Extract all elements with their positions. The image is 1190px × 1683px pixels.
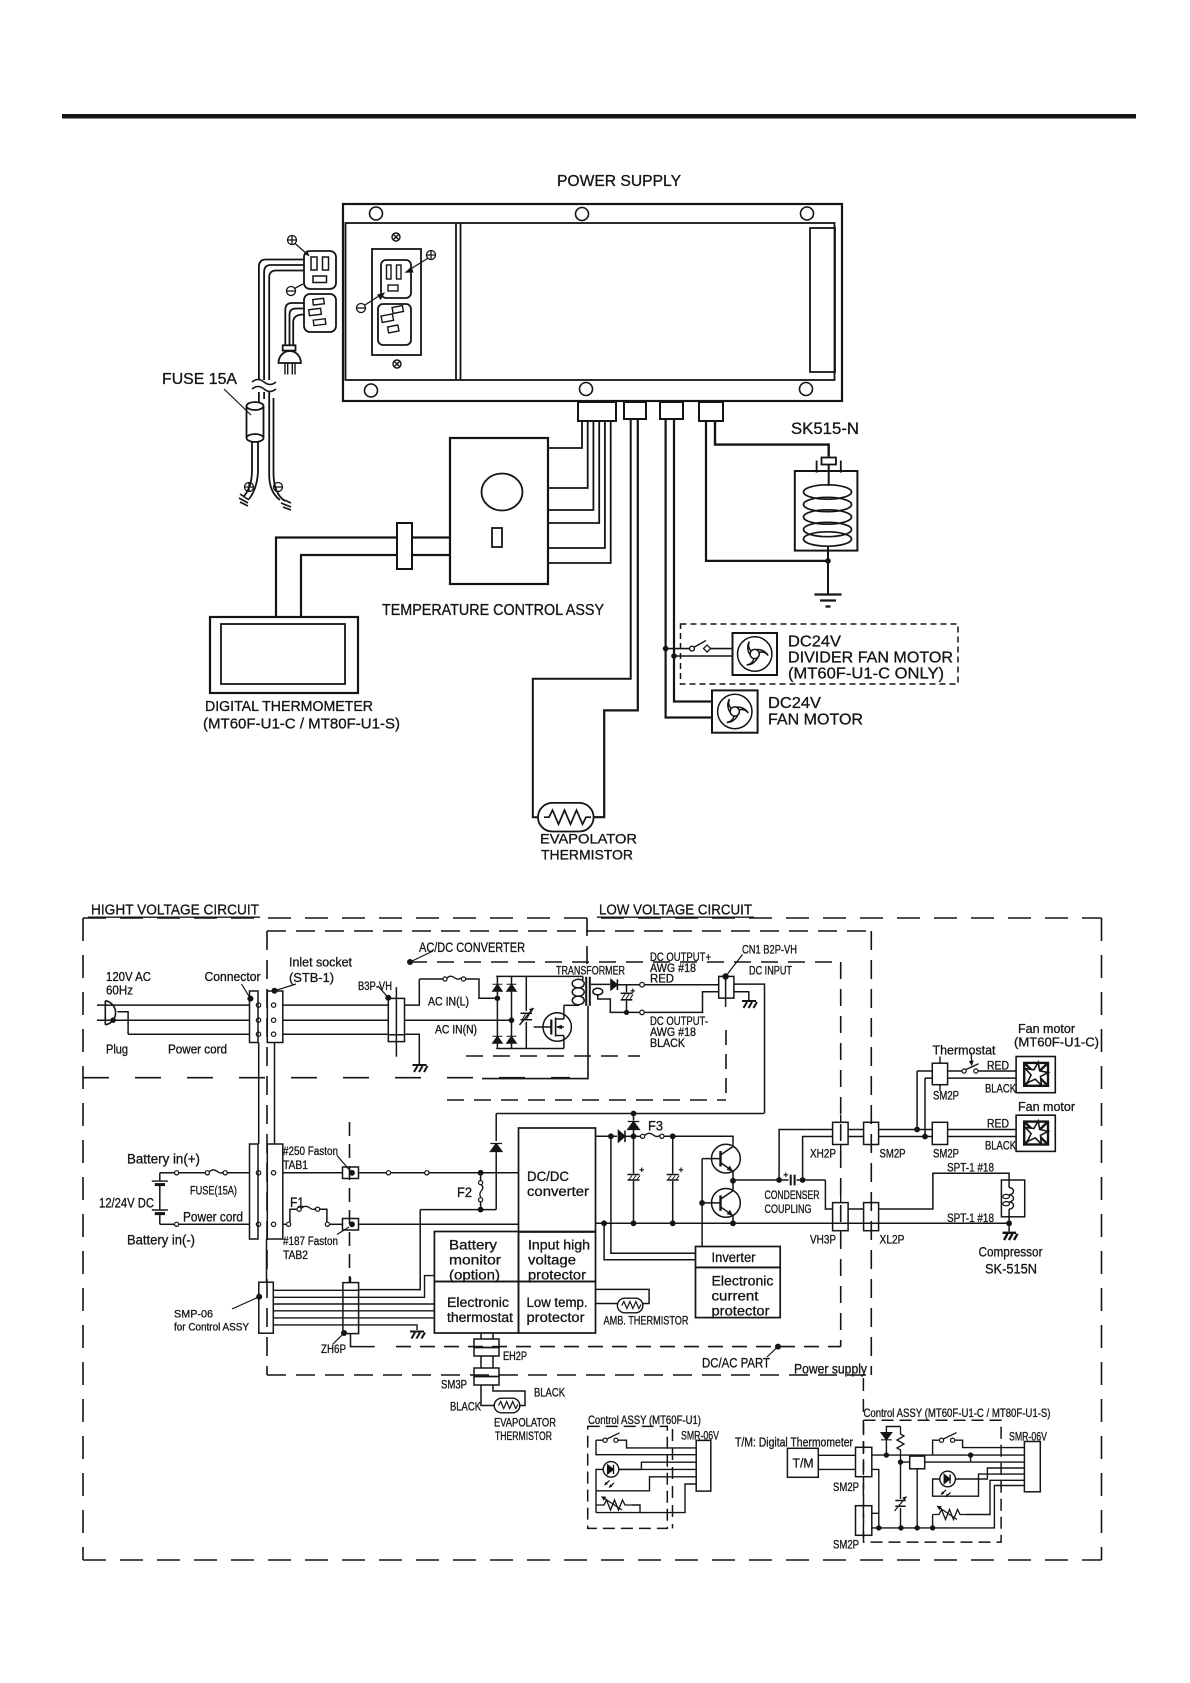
svg-text:Low temp.: Low temp. [527, 1295, 588, 1310]
plug blade and ground lead [118, 1012, 129, 1034]
vertical divider double line [456, 223, 461, 380]
bridge rectifier bottom rail [496, 1048, 564, 1050]
secondary top lead [591, 983, 610, 985]
svg-text:XH2P: XH2P [810, 1149, 836, 1161]
screw top-right [801, 207, 814, 220]
svg-text:TAB2: TAB2 [283, 1250, 308, 1262]
inlet socket housing [267, 991, 283, 1043]
left box switch [603, 1438, 607, 1442]
plus wire TAB1 to DC/DC [359, 1172, 387, 1174]
arrow from minus marker to upper socket lower slot [365, 297, 378, 306]
cable down to SMP-06 [266, 1239, 268, 1282]
minus marker at cord end [274, 483, 283, 492]
dc/ac part dashed mid horizontal [447, 1099, 726, 1101]
F2 bottom horizontal [420, 1209, 496, 1211]
fuse 15A on plus wire [205, 1171, 209, 1175]
wire to VH3P [825, 1180, 832, 1209]
svg-text:Battery in(+): Battery in(+) [127, 1152, 200, 1167]
fan1 black wire [948, 1077, 1017, 1079]
DC output wires to CN1 [644, 984, 718, 986]
bridge diode LR [507, 1036, 517, 1043]
svg-text:(option): (option) [449, 1268, 500, 1283]
ground ZH6P [410, 1332, 425, 1339]
SK515 coil bottom lead to junction [827, 546, 829, 561]
wire tab3-right to fan motor (upper) [674, 419, 712, 702]
wires tab1 to temperature control [548, 421, 582, 448]
svg-text:Control ASSY (MT60F-U1): Control ASSY (MT60F-U1) [588, 1413, 701, 1427]
F3 fuse [641, 1134, 645, 1138]
IEC outlet lower [378, 304, 411, 345]
frayed wire ends right [281, 499, 291, 510]
battery connector housing left [250, 1144, 259, 1239]
MOSFET internals [550, 1020, 552, 1035]
svg-text:FUSE 15A: FUSE 15A [162, 371, 238, 388]
svg-text:B3P-VH: B3P-VH [358, 981, 392, 993]
svg-text:DIGITAL THERMOMETER: DIGITAL THERMOMETER [205, 698, 373, 715]
top low voltage wire [496, 1113, 764, 1115]
plus marker at cord end [245, 483, 254, 492]
svg-text:converter: converter [527, 1184, 590, 1199]
svg-text:protector: protector [528, 1268, 587, 1283]
node dot ac/dc converter leader [407, 959, 413, 965]
minus wire F1 bump [283, 1223, 287, 1225]
junction dots from upper fan [914, 1127, 920, 1133]
divider fan switch [666, 648, 690, 650]
electronic thermostat box [434, 1282, 518, 1334]
cable connector to digital thermometer [276, 538, 397, 618]
SM2P lower (T/M) [856, 1506, 872, 1536]
transistor Q2 [712, 1189, 741, 1218]
wire B3P bottom pin to ground [405, 1034, 420, 1064]
screw bottom-left [365, 384, 378, 397]
primary bottom lead [564, 1004, 579, 1006]
secondary bottom lead path [598, 995, 640, 1012]
SK515 coil box [795, 471, 858, 551]
wire B3P mid pin AC IN(N) [405, 1019, 512, 1021]
control assy left dashed box [588, 1426, 668, 1528]
input high voltage protector box [519, 1232, 596, 1282]
svg-text:SMR-06V: SMR-06V [1009, 1430, 1047, 1444]
svg-text:Power cord: Power cord [168, 1042, 227, 1057]
fuse on AC line [419, 978, 443, 980]
svg-text:THERMISTOR: THERMISTOR [541, 848, 633, 863]
wire tab4-right to SK515 terminal [715, 421, 829, 457]
risers to upper SM2P [917, 1071, 925, 1137]
ZH6P connector [343, 1283, 359, 1334]
svg-text:EVAPOLATOR: EVAPOLATOR [494, 1418, 556, 1430]
LED arrows [605, 1481, 615, 1488]
svg-text:F2: F2 [457, 1185, 472, 1200]
svg-text:#250 Faston: #250 Faston [283, 1146, 338, 1158]
dc part dashed top [410, 961, 841, 963]
connector tab 1 under chassis [578, 402, 616, 421]
right box small rect bottom to rail [916, 1469, 918, 1528]
svg-text:BLACK: BLACK [450, 1402, 481, 1414]
wires EH2P to SM3P [481, 1356, 493, 1368]
svg-text:LOW VOLTAGE CIRCUIT: LOW VOLTAGE CIRCUIT [599, 902, 752, 919]
control cable wires 1-6 [273, 1289, 359, 1291]
inverter feeds [611, 1136, 696, 1253]
svg-text:T/M: T/M [793, 1456, 814, 1471]
control assy boundary dashed vertical [862, 1378, 864, 1544]
svg-text:(MT60F-U1-C): (MT60F-U1-C) [1014, 1035, 1099, 1050]
bridge left column [496, 976, 498, 1048]
junction dot divider fan bottom [671, 653, 677, 659]
CN1 leader dot [722, 973, 728, 979]
power supply inner dashed box [267, 931, 871, 1375]
divider fan motor box [733, 633, 778, 675]
battery monitor box [434, 1232, 518, 1282]
svg-text:Connector: Connector [205, 969, 262, 984]
SM2P upper connector [932, 1063, 947, 1085]
power supply chassis outer box [343, 204, 842, 401]
fan motor 1 icon [1024, 1062, 1048, 1086]
svg-text:RED: RED [650, 974, 674, 986]
svg-text:protector: protector [712, 1304, 771, 1319]
svg-text:AC/DC CONVERTER: AC/DC CONVERTER [419, 939, 525, 955]
svg-text:Plug: Plug [106, 1042, 128, 1057]
ac/dc converter dashed bottom [466, 1055, 640, 1057]
B3P-VH leader dot [385, 995, 391, 1001]
SM2P right lower connector [932, 1122, 947, 1144]
dashed vertical right of left control box [672, 1429, 674, 1528]
svg-text:SM2P: SM2P [833, 1482, 859, 1494]
svg-text:TRANSFORMER: TRANSFORMER [556, 966, 625, 978]
cord below break [259, 392, 264, 402]
svg-text:DC24V: DC24V [788, 634, 841, 651]
DC/DC converter box [519, 1128, 596, 1232]
wire tab3-left to fan motor (lower) [666, 419, 712, 718]
condenser coupling [733, 1179, 789, 1181]
faston boundary dashed vertical [349, 1122, 351, 1282]
bridge right column [511, 976, 513, 1048]
svg-text:BLACK: BLACK [650, 1038, 685, 1050]
svg-text:Inlet socket: Inlet socket [289, 955, 352, 970]
battery minus wire [160, 1223, 175, 1225]
control assy right dashed box [864, 1420, 1002, 1542]
output electrolytic cap [621, 993, 633, 1000]
SM2P upper (T/M) [856, 1447, 872, 1476]
power cord wire L [97, 1004, 250, 1006]
plus screw marker near plate [427, 251, 436, 260]
svg-text:THERMISTOR: THERMISTOR [495, 1431, 552, 1443]
bridge rectifier top rail [496, 975, 583, 977]
right box row B with connector [901, 1461, 1025, 1463]
series diode F3 row [618, 1131, 625, 1143]
MOSFET drain lead up [563, 1005, 565, 1019]
svg-text:POWER SUPPLY: POWER SUPPLY [557, 173, 681, 190]
IEC inlet upper [381, 260, 411, 298]
right box thermistor [933, 1510, 966, 1520]
arrow from plus marker to upper socket [409, 259, 428, 271]
svg-text:voltage: voltage [528, 1253, 576, 1268]
CN1 bottom pin to ground [734, 992, 749, 1000]
svg-text:CONDENSER: CONDENSER [765, 1190, 820, 1202]
svg-text:SM2P: SM2P [933, 1149, 959, 1161]
svg-text:DC INPUT: DC INPUT [749, 966, 792, 978]
inverter box [696, 1247, 781, 1268]
minus wire TAB2 to DC/DC [359, 1223, 519, 1225]
snubber branch [525, 976, 527, 1048]
fan motor 2 icon [1024, 1121, 1048, 1145]
svg-text:AC IN(N): AC IN(N) [435, 1025, 477, 1037]
screw bottom-right [800, 383, 813, 396]
svg-text:thermostat: thermostat [447, 1310, 513, 1325]
ground compressor [1008, 1223, 1010, 1231]
connector body links down [259, 1043, 275, 1145]
power cord from lower NEMA to wall plug [285, 303, 304, 345]
svg-text:Electronic: Electronic [447, 1295, 509, 1310]
frayed wire ends left [239, 494, 249, 506]
svg-text:Fan motor: Fan motor [1018, 1099, 1076, 1114]
svg-text:XL2P: XL2P [880, 1235, 905, 1247]
digital thermometer outer [210, 617, 358, 693]
connector tab 2 under chassis [624, 402, 646, 419]
svg-text:SPT-1 #18: SPT-1 #18 [947, 1161, 994, 1175]
NEMA connector lower (plug body) [304, 294, 336, 332]
minus screw marker near plate [357, 304, 366, 313]
svg-text:BLACK: BLACK [985, 1141, 1016, 1153]
bridge diode UL [493, 984, 503, 991]
svg-text:SM3P: SM3P [441, 1380, 467, 1392]
plus wire to faston TAB1 [283, 1172, 343, 1174]
connector tab 3 under chassis [660, 402, 683, 419]
CN1 B2P-VH connector [719, 976, 734, 998]
battery connector housing right [267, 1144, 283, 1239]
bridge diode LL [493, 1036, 503, 1043]
wires inlet to B3P [283, 1005, 388, 1034]
svg-text:SMP-06: SMP-06 [174, 1309, 213, 1321]
outer dashed enclosure box [83, 918, 1102, 1560]
svg-text:(MT60F-U1-C ONLY): (MT60F-U1-C ONLY) [788, 666, 944, 683]
evaporator thermistor symbol [494, 1398, 520, 1413]
connector leader dot [247, 996, 253, 1002]
F3 row wire [596, 1135, 618, 1137]
svg-text:Electronic: Electronic [712, 1274, 774, 1289]
svg-text:FUSE(15A): FUSE(15A) [190, 1186, 237, 1198]
electrolytic cap 2 [672, 1136, 674, 1221]
plus marker top-left [288, 236, 297, 245]
svg-text:SK-515N: SK-515N [985, 1261, 1037, 1277]
battery cell 1 [152, 1180, 168, 1182]
svg-text:F1: F1 [290, 1195, 304, 1210]
right box varistor to rail [900, 1462, 902, 1528]
fuse cylinder [247, 406, 264, 438]
B3P-VH connector [388, 998, 404, 1041]
screw top-mid [576, 208, 589, 221]
XH2P connector [833, 1122, 849, 1144]
svg-text:HIGHT VOLTAGE CIRCUIT: HIGHT VOLTAGE CIRCUIT [91, 902, 259, 919]
svg-text:Battery: Battery [449, 1238, 497, 1253]
dashed box divider fan motor [681, 624, 959, 684]
right box diode branch [886, 1427, 900, 1456]
DC output pin circles [640, 982, 645, 987]
wire tab4-left to SK515 coil bottom [706, 421, 828, 561]
svg-text:Power supply: Power supply [794, 1362, 867, 1377]
wires thermostat box to EH2P [481, 1333, 493, 1339]
plug dot [110, 1017, 116, 1023]
fan motor 2 box [1016, 1115, 1055, 1151]
svg-text:for Control ASSY: for Control ASSY [174, 1322, 250, 1334]
high voltage divider dashed vertical [586, 918, 588, 972]
T/M to SM2P wires [818, 1455, 855, 1469]
diode on riser [490, 1144, 502, 1152]
leader line FUSE 15A [224, 389, 251, 415]
SM2P middle connector [864, 1122, 879, 1144]
SMP-06 connector [259, 1282, 274, 1333]
svg-text:DC/AC PART: DC/AC PART [702, 1356, 770, 1371]
wire tab2-left to evaporator thermistor left [533, 419, 631, 817]
T/M box [787, 1448, 818, 1477]
high voltage strip bottom dashed [83, 1077, 570, 1079]
right box bottom rail [872, 1486, 1025, 1528]
fan motor box [712, 690, 758, 732]
diode vertical at 633.5 [633, 1114, 635, 1137]
svg-text:ZH6P: ZH6P [321, 1344, 346, 1356]
svg-text:COUPLING: COUPLING [765, 1204, 812, 1216]
battery connector pins [256, 1171, 260, 1175]
SMR-06V connector right [1024, 1442, 1040, 1492]
transformer primary windings [572, 979, 584, 1004]
wire1 ZH6P up to F2 line [360, 1210, 421, 1290]
svg-text:AMB. THERMISTOR: AMB. THERMISTOR [604, 1316, 689, 1328]
svg-text:(MT60F-U1-C / MT80F-U1-S): (MT60F-U1-C / MT80F-U1-S) [203, 716, 400, 733]
left box thermistor [596, 1500, 632, 1510]
MOSFET source lead down [563, 1036, 565, 1049]
svg-text:DC24V: DC24V [768, 695, 821, 712]
svg-text:SK515-N: SK515-N [791, 420, 859, 438]
T/M SM2P riser [872, 1469, 879, 1528]
inlet socket leader dot [272, 988, 278, 994]
cord break squiggle [252, 380, 276, 392]
connector tab 4 under chassis [699, 402, 723, 421]
svg-text:#187 Faston: #187 Faston [283, 1236, 338, 1248]
svg-text:DIVIDER FAN MOTOR: DIVIDER FAN MOTOR [788, 650, 953, 667]
wires XH2P-SM2P-SM2P right [848, 1130, 864, 1137]
screw top-left [370, 207, 383, 220]
svg-text:SM2P: SM2P [833, 1540, 859, 1552]
svg-text:60Hz: 60Hz [106, 983, 133, 998]
fan motor 1 box [1016, 1057, 1055, 1093]
SM2P right wires to fan2 [948, 1130, 1017, 1137]
socket mounting plate [372, 249, 421, 355]
junction dot divider fan top [663, 646, 669, 652]
evaporator thermistor zigzag [544, 810, 591, 824]
digital thermometer screen [221, 624, 345, 684]
ground CN1 [742, 1001, 757, 1008]
svg-text:Control ASSY (MT60F-U1-C / MT8: Control ASSY (MT60F-U1-C / MT80F-U1-S) [864, 1406, 1051, 1420]
connector pins row2 [256, 1018, 260, 1022]
dc/ac part dashed bottom [396, 1346, 841, 1348]
XL2P connector [864, 1203, 879, 1231]
right box LED [940, 1471, 956, 1487]
wall plug [283, 345, 296, 350]
output rectifier diode [611, 979, 618, 990]
transformer secondary winding [593, 988, 603, 995]
minus marker left [287, 287, 296, 296]
connector pins row3 [256, 1032, 260, 1036]
electronic current protector box [696, 1267, 781, 1317]
low temp protector to AMB thermistor [596, 1303, 619, 1305]
SK515 coil windings [804, 485, 852, 546]
XL2P to compressor top [879, 1173, 1010, 1209]
MOSFET circle [543, 1013, 571, 1041]
svg-text:12/24V DC: 12/24V DC [99, 1196, 154, 1211]
svg-text:Thermostat: Thermostat [933, 1043, 996, 1058]
right tall rectangle [810, 228, 835, 372]
bottom rail right section [596, 1222, 1010, 1224]
condenser risers to XH2P [779, 1130, 833, 1181]
svg-text:RED: RED [987, 1119, 1009, 1131]
svg-text:F3: F3 [648, 1119, 663, 1134]
dashed vertical x726 [725, 1030, 727, 1100]
battery plus wire [160, 1172, 175, 1174]
temperature control assy box [450, 438, 548, 584]
left box loop to pin5 [596, 1477, 696, 1491]
left box LED wiring [619, 1462, 696, 1469]
svg-text:monitor: monitor [449, 1253, 502, 1268]
screw bottom-mid [580, 383, 593, 396]
divider fan bottom wire [674, 655, 733, 657]
svg-text:CN1 B2P-VH: CN1 B2P-VH [742, 945, 797, 957]
power cord wire ground [128, 1033, 249, 1035]
AMB thermistor symbol [617, 1298, 643, 1313]
svg-text:current: current [712, 1289, 759, 1304]
connector housing left [250, 991, 259, 1043]
battery cell 2 [152, 1209, 168, 1211]
plug symbol [105, 1001, 115, 1025]
svg-text:SMR-06V: SMR-06V [681, 1429, 719, 1443]
transistor Q1 [712, 1144, 741, 1173]
wire tab2-right to evaporator thermistor right [593, 419, 638, 817]
CN1 top pin feed down to low voltage rail [734, 984, 765, 1113]
faston TAB2 [343, 1219, 359, 1231]
svg-text:VH3P: VH3P [810, 1235, 836, 1247]
VH3P connector [833, 1203, 849, 1231]
svg-text:BLACK: BLACK [534, 1388, 565, 1400]
svg-text:TAB1: TAB1 [283, 1160, 308, 1172]
output cap riser [626, 985, 628, 1013]
svg-text:EVAPOLATOR: EVAPOLATOR [540, 832, 637, 847]
varistor symbol [520, 1008, 534, 1025]
svg-text:DC/DC: DC/DC [527, 1169, 569, 1184]
svg-text:SM2P: SM2P [880, 1149, 906, 1161]
EH2P connector [474, 1339, 499, 1348]
right box switch [939, 1438, 943, 1442]
base rail down to inverter [701, 1159, 703, 1247]
compressor winding [1008, 1180, 1010, 1188]
F2 branch [478, 1170, 484, 1176]
ground B3P [413, 1065, 428, 1072]
small screw upper on plate [392, 233, 400, 241]
low temp protector box [519, 1282, 596, 1334]
battery leads [159, 1173, 161, 1225]
power cord wire N [97, 1019, 250, 1021]
svg-text:EH2P: EH2P [503, 1351, 527, 1363]
svg-text:RED: RED [987, 1061, 1009, 1073]
power supply inner panel [346, 223, 835, 380]
svg-text:SM2P: SM2P [933, 1091, 959, 1103]
connector pins row1 [256, 1003, 260, 1007]
thermostat switch [948, 1070, 962, 1072]
cable temp control to connector [412, 538, 450, 556]
dc/ac part leader dot [775, 1344, 781, 1350]
svg-text:(STB-1): (STB-1) [289, 970, 334, 985]
right box resistor branch [897, 1427, 904, 1463]
bridge diode UR [507, 984, 517, 991]
riser to top wire with diode [495, 1114, 497, 1210]
connector on thermometer cable [397, 523, 412, 569]
